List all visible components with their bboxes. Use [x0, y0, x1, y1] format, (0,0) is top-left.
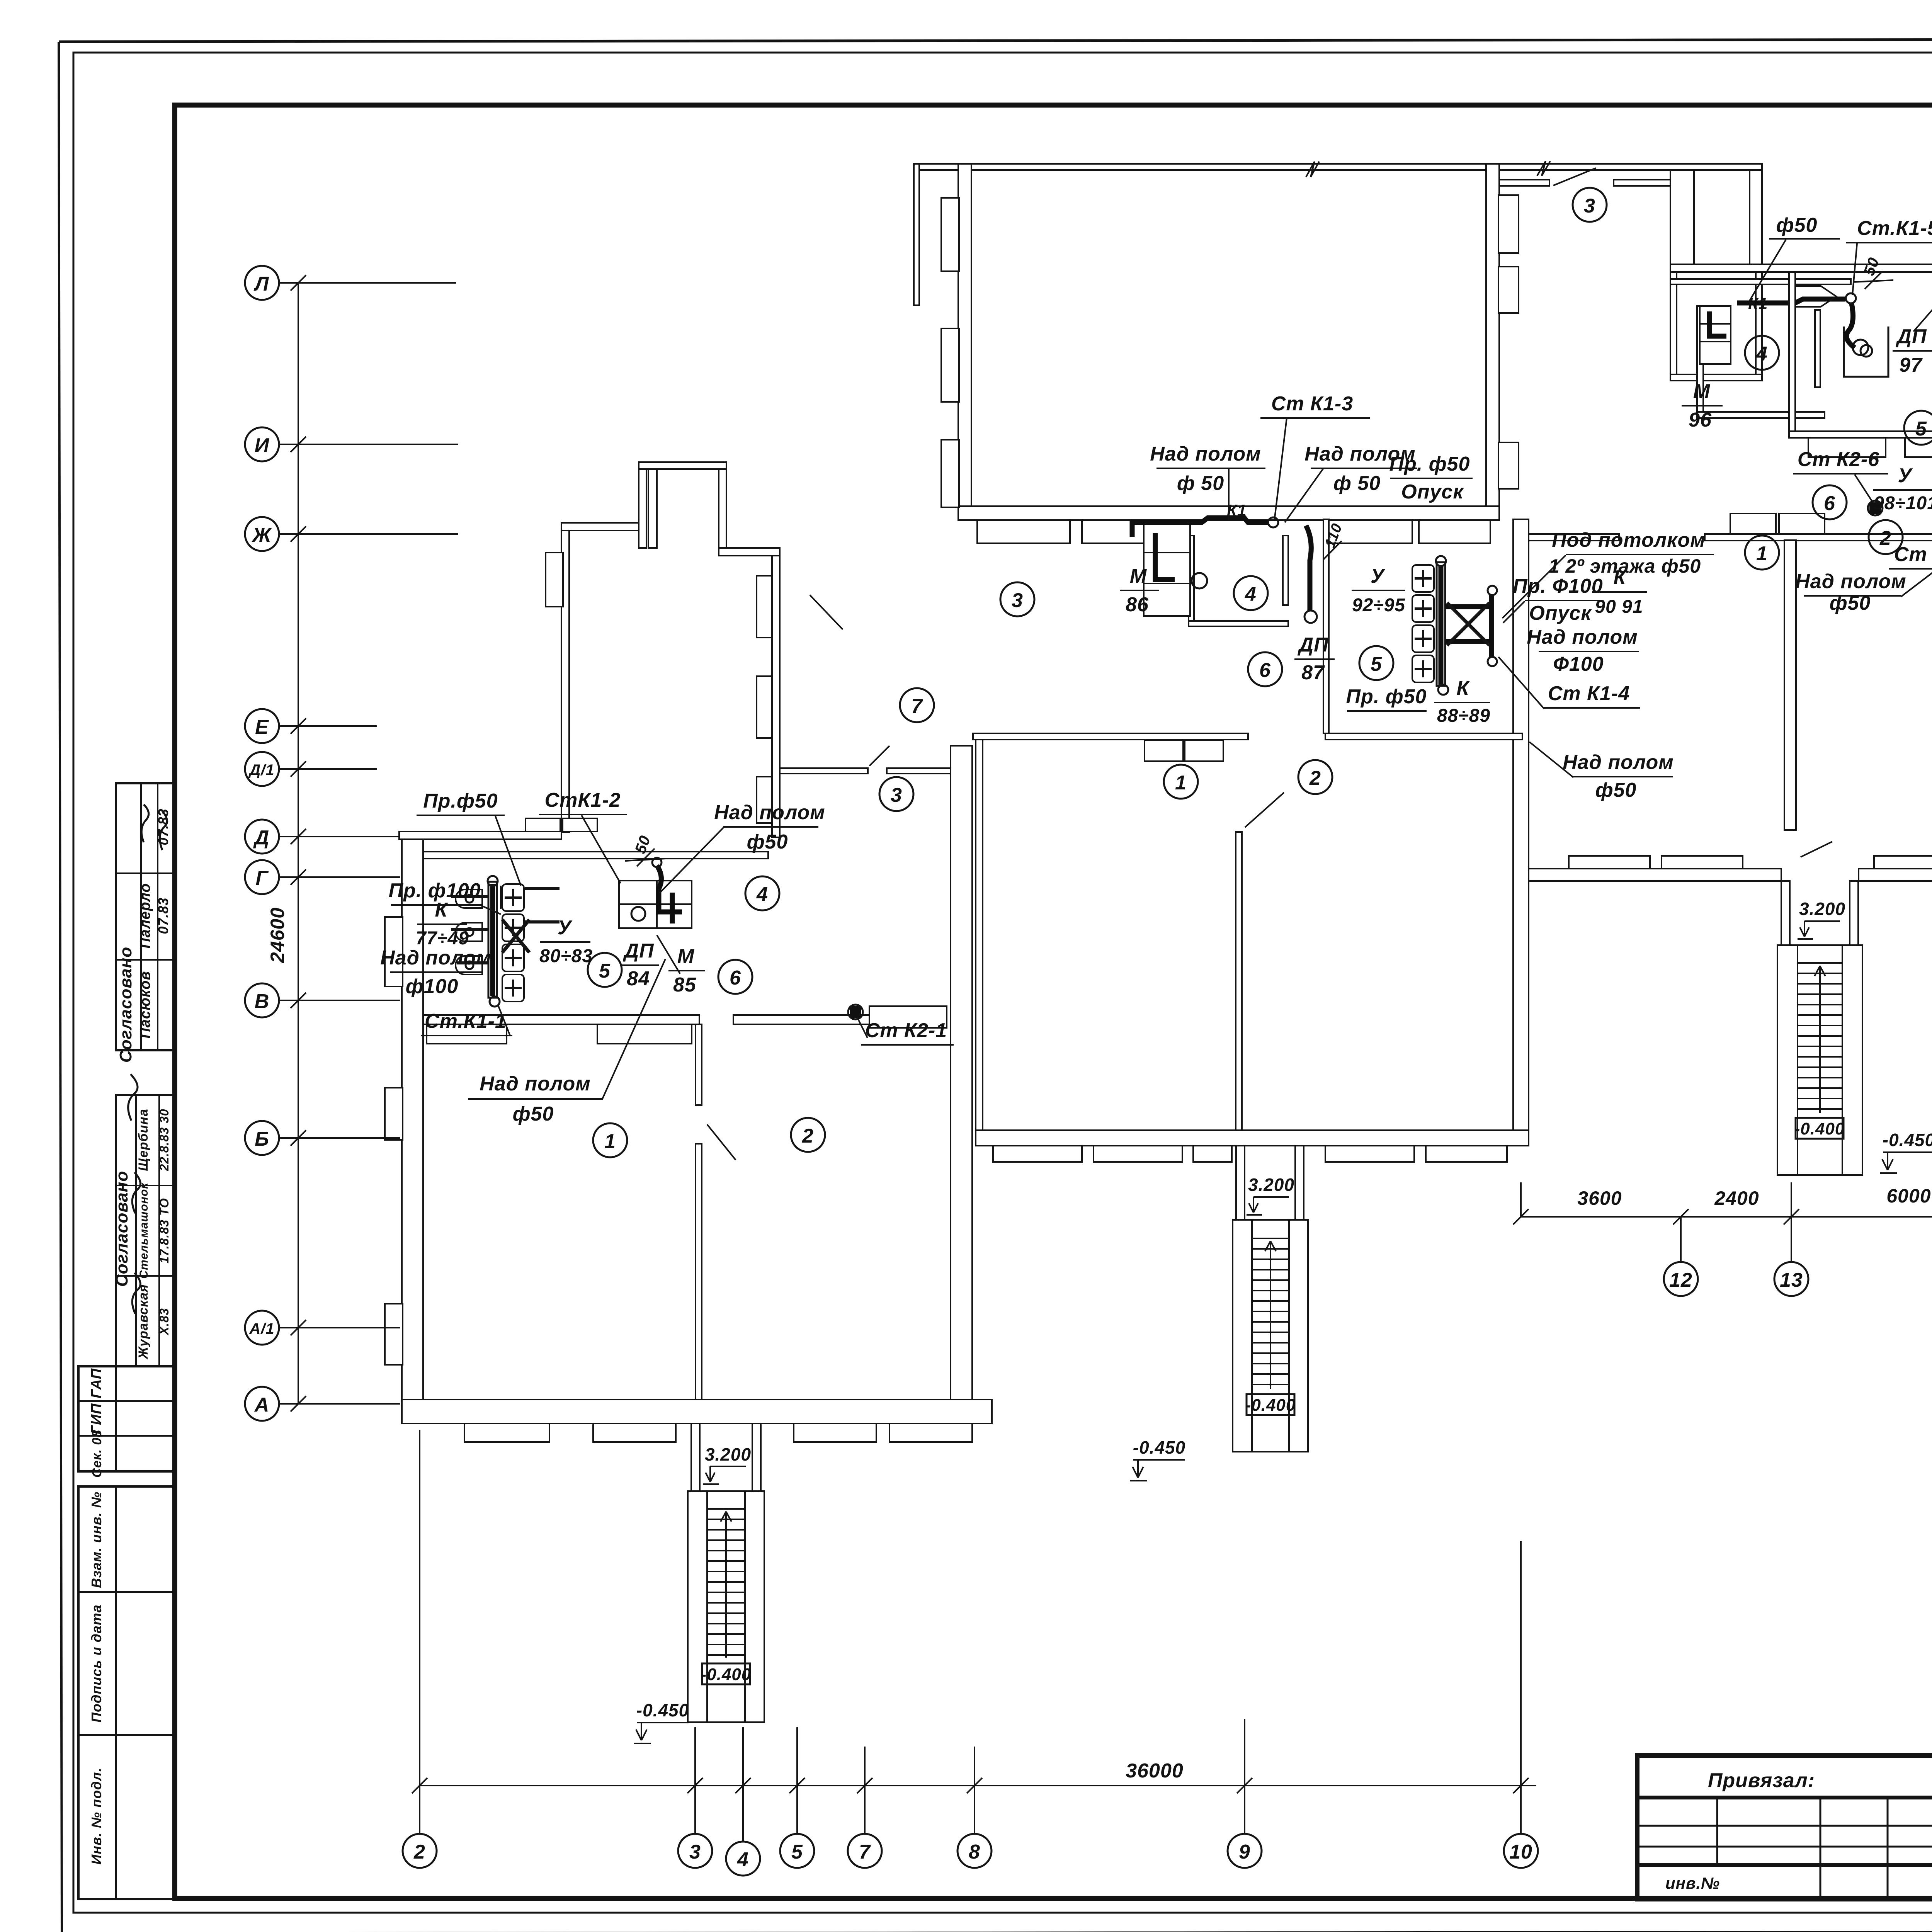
svg-text:Ст.К1-1: Ст.К1-1	[425, 1010, 507, 1032]
svg-text:Опуск: Опуск	[1401, 481, 1464, 503]
svg-text:ф50: ф50	[747, 831, 788, 853]
toilet group center (U 92-95)	[1412, 556, 1497, 695]
svg-text:88÷89: 88÷89	[1437, 706, 1490, 726]
axis 3	[678, 1727, 712, 1868]
svg-text:Журавская: Журавская	[136, 1284, 151, 1360]
svg-text:ф50: ф50	[1776, 214, 1818, 236]
svg-text:У: У	[558, 917, 573, 939]
label f50 NE	[1750, 214, 1840, 301]
svg-text:ф50: ф50	[1830, 592, 1871, 614]
svg-text:90 91: 90 91	[1595, 597, 1643, 617]
sink unit M86	[1144, 523, 1207, 616]
svg-text:ДП: ДП	[1298, 634, 1329, 656]
svg-text:Д/1: Д/1	[248, 762, 274, 779]
room circle 4 topright	[1745, 336, 1779, 370]
sink pipe top-right	[1709, 311, 1726, 336]
svg-text:1: 1	[1756, 543, 1768, 565]
svg-text:5: 5	[1915, 418, 1927, 440]
east wing partition axis 13	[1784, 540, 1796, 830]
axis 2	[403, 1430, 437, 1868]
wall stub left of room3 door	[1499, 180, 1549, 186]
axis 12	[1664, 1217, 1698, 1296]
label Nad polom f50 SW	[468, 959, 665, 1125]
room circle 5 center	[1359, 646, 1393, 680]
label U 98-101	[1873, 464, 1932, 514]
east wing north wall	[1529, 534, 1619, 541]
svg-text:ф50: ф50	[1595, 779, 1637, 801]
room circle 5 left	[588, 953, 622, 987]
axis L	[245, 266, 456, 300]
door leaf annex	[810, 595, 843, 629]
svg-text:У: У	[1898, 464, 1913, 487]
windows right wall top block	[1498, 195, 1519, 489]
svg-text:4: 4	[756, 883, 768, 906]
axis E	[245, 709, 377, 743]
svg-text:У: У	[1371, 565, 1386, 587]
svg-text:Сек. 08: Сек. 08	[90, 1430, 104, 1478]
label St K1-6	[1889, 479, 1932, 569]
label K 88-89	[1434, 677, 1490, 726]
svg-text:Над полом: Над полом	[380, 947, 491, 969]
label St K2-1	[859, 1019, 954, 1045]
cabinets below suite wall	[1808, 438, 1932, 457]
duct block room 3 right	[1670, 170, 1762, 269]
svg-text:ф100: ф100	[406, 975, 459, 998]
room circle 4 center	[1234, 576, 1268, 610]
room circle 3 top	[1573, 188, 1607, 222]
annex west window	[546, 553, 563, 607]
corridor band partition	[1323, 519, 1329, 733]
room circle 6 center	[1248, 652, 1282, 686]
DP counter top-right	[1844, 327, 1888, 377]
svg-text:Пр. ф50: Пр. ф50	[1389, 453, 1470, 475]
cabinets on east wing north wall	[1730, 514, 1825, 534]
svg-text:Пасюков: Пасюков	[137, 971, 153, 1039]
svg-text:3: 3	[1584, 195, 1595, 217]
svg-text:85: 85	[673, 974, 696, 996]
top-center block left wall	[958, 164, 971, 519]
east wing south wall	[1529, 869, 1781, 881]
svg-text:ф50: ф50	[513, 1103, 554, 1125]
label U 80-83	[539, 917, 593, 966]
svg-text:Ж: Ж	[251, 524, 272, 546]
axis Zh	[245, 517, 458, 551]
svg-text:17.8.83 ТО: 17.8.83 ТО	[157, 1198, 171, 1264]
110 slash mark	[1322, 521, 1345, 560]
svg-text:И: И	[255, 434, 270, 457]
east corridor top wall	[1670, 264, 1932, 272]
door leaf room 3	[1553, 168, 1596, 185]
east wing window sills south	[1569, 856, 1932, 869]
M96 room walls	[1670, 269, 1762, 381]
svg-text:ГАП: ГАП	[88, 1368, 105, 1398]
top-center block top wall	[914, 164, 1762, 170]
axis I	[245, 427, 458, 461]
annex tower inner wall	[648, 469, 657, 548]
veranda wall stub left	[914, 164, 919, 305]
svg-text:Б: Б	[255, 1128, 269, 1150]
toilet suite top wall left wing	[423, 852, 768, 859]
buffet room 4 center walls	[1189, 536, 1288, 626]
left wing mid walls	[423, 1015, 699, 1024]
label Nad polom F100 E	[1527, 626, 1639, 675]
room circle 5 topright	[1904, 411, 1932, 445]
label K 90 91	[1592, 566, 1647, 617]
svg-text:86: 86	[1126, 594, 1149, 616]
stair E 3.200 mark	[1798, 899, 1845, 939]
stair S-center -0.450 mark	[1130, 1437, 1185, 1481]
svg-text:3: 3	[891, 784, 902, 806]
svg-text:Над полом: Над полом	[1527, 626, 1638, 648]
svg-text:3.200: 3.200	[1248, 1175, 1294, 1195]
svg-text:Над полом: Над полом	[1150, 443, 1261, 465]
label St K1-3	[1260, 393, 1370, 521]
svg-text:2400: 2400	[1714, 1187, 1759, 1209]
vent hood pentagon	[1790, 286, 1836, 307]
label Nad polom f50 SE of suite	[1795, 482, 1932, 614]
svg-text:Согласовано: Согласовано	[116, 947, 135, 1063]
svg-text:-0.400: -0.400	[1245, 1396, 1296, 1415]
svg-text:2: 2	[1879, 527, 1891, 549]
svg-text:07.83: 07.83	[155, 897, 171, 934]
axis D1	[245, 752, 377, 786]
svg-text:ф 50: ф 50	[1333, 472, 1381, 495]
windows left wall top block	[941, 198, 959, 507]
axis V	[245, 983, 400, 1017]
annex top wall	[561, 523, 643, 531]
st K2-1 stack	[848, 1005, 863, 1019]
svg-text:5: 5	[1371, 653, 1382, 675]
door leaf east partition	[1801, 842, 1832, 857]
label M 85	[657, 935, 705, 996]
svg-text:К: К	[1457, 677, 1470, 699]
svg-text:-0.400: -0.400	[1794, 1119, 1845, 1138]
svg-text:36000: 36000	[1126, 1760, 1184, 1782]
axis 10	[1504, 1541, 1538, 1868]
svg-text:6: 6	[1259, 659, 1271, 682]
door leaf wing rooms	[707, 1124, 736, 1160]
svg-text:24600: 24600	[267, 907, 288, 963]
left wing north wall	[399, 832, 561, 839]
svg-text:3: 3	[1012, 589, 1023, 612]
stair S-center entry walls	[1236, 1146, 1304, 1220]
svg-text:Подпись и дата: Подпись и дата	[88, 1604, 104, 1723]
right dimension line 3600-2400-6000	[1513, 1182, 1932, 1225]
west wall windows	[385, 917, 403, 1365]
svg-text:Г: Г	[256, 867, 269, 889]
label M 96	[1682, 380, 1723, 431]
corridor band bottom walls	[973, 733, 1248, 740]
room circle 3 left	[879, 777, 913, 811]
svg-text:5: 5	[599, 960, 611, 982]
sink pipe M86	[1155, 533, 1175, 580]
sink unit top-right	[1700, 306, 1731, 364]
privyazal box	[1637, 1755, 1932, 1899]
svg-text:К: К	[1614, 566, 1627, 589]
room circle 2 topright	[1869, 520, 1903, 554]
svg-text:ф 50: ф 50	[1177, 472, 1224, 495]
svg-text:Х.83: Х.83	[157, 1308, 171, 1336]
st K2-6 stack	[1868, 501, 1883, 515]
stamp block A (top, Согласовано)	[116, 783, 175, 1063]
svg-text:Пр. ф50: Пр. ф50	[1346, 685, 1427, 708]
stair SW -0.450 mark	[634, 1700, 689, 1743]
svg-text:1: 1	[604, 1130, 616, 1153]
svg-text:Палерло: Палерло	[137, 883, 153, 948]
svg-text:А/1: А/1	[249, 1320, 274, 1337]
axis 7	[848, 1747, 882, 1868]
label Pr f50 W	[417, 790, 521, 886]
sink unit M85	[619, 881, 692, 928]
svg-text:22.8.83 30: 22.8.83 30	[157, 1109, 171, 1171]
svg-text:Пр.ф50: Пр.ф50	[423, 790, 498, 812]
svg-text:Ст К1-6: Ст К1-6	[1894, 543, 1932, 566]
corridor7 south walls	[780, 768, 868, 774]
svg-text:Ст.К1-5: Ст.К1-5	[1857, 217, 1932, 240]
svg-text:5: 5	[791, 1841, 803, 1863]
room circle 1 left	[593, 1123, 627, 1157]
second break zigzag	[1537, 161, 1550, 176]
label Pr f50 NE	[1913, 202, 1932, 332]
axis A1	[245, 1311, 400, 1345]
top-center block bottom wall	[958, 506, 1499, 520]
50 slash mark W	[625, 833, 665, 866]
toilet group left (K 77-79)	[451, 876, 560, 1007]
annex east wall	[772, 548, 780, 837]
label M 86	[1120, 565, 1159, 616]
partition rooms 1-2 center	[1236, 832, 1242, 1130]
room circle 6 left	[718, 960, 752, 994]
svg-text:ДП: ДП	[1896, 325, 1927, 348]
label K 77-79	[416, 899, 469, 949]
stamp block C (bottom, Инв./Подпись)	[78, 1486, 175, 1899]
svg-text:инв.№: инв.№	[1665, 1874, 1720, 1892]
K1 pipe top-right	[1737, 293, 1872, 357]
suite bottom wall	[1789, 431, 1932, 438]
svg-text:Щербина: Щербина	[136, 1109, 151, 1171]
svg-text:98÷101: 98÷101	[1874, 493, 1932, 514]
svg-text:3.200: 3.200	[705, 1444, 751, 1464]
annex link wall	[719, 548, 780, 556]
stamp block B (middle, Согласовано ГАП/ГИП)	[78, 1074, 175, 1478]
svg-text:12: 12	[1669, 1269, 1692, 1291]
room circle 1 east	[1745, 536, 1779, 570]
stair SW entry walls	[691, 1423, 761, 1491]
stair SW tower	[688, 1491, 764, 1722]
label St K1-2	[539, 789, 627, 883]
sills below top block bottom wall	[977, 520, 1490, 543]
label Pr F100 Opusk	[1503, 575, 1604, 624]
stair E tower	[1777, 945, 1862, 1175]
label Nad polom f50 W	[659, 801, 825, 893]
svg-text:4: 4	[737, 1849, 749, 1871]
svg-text:6: 6	[730, 967, 741, 989]
svg-text:А: А	[254, 1394, 270, 1416]
sills right of stack	[869, 1006, 947, 1028]
label DP 84	[621, 940, 659, 990]
svg-text:Над полом: Над полом	[1795, 570, 1906, 593]
cabinets room1 top	[1145, 740, 1223, 761]
room circle 1 center	[1164, 765, 1198, 799]
svg-text:Л: Л	[253, 273, 269, 295]
stair S-center 3.200 mark	[1247, 1175, 1294, 1215]
room circle 2 left	[791, 1118, 825, 1152]
svg-text:Ф100: Ф100	[1553, 653, 1604, 675]
cabinets on wing north wall	[526, 818, 597, 832]
svg-text:Ст К2-1: Ст К2-1	[865, 1019, 947, 1042]
axis B	[245, 1121, 400, 1155]
label St K1-1	[421, 1006, 512, 1036]
left wing south wall	[402, 1400, 992, 1423]
room circle 7 left	[900, 688, 934, 722]
stair E entry walls	[1781, 881, 1858, 945]
svg-text:6000: 6000	[1886, 1185, 1931, 1207]
svg-text:Над полом: Над полом	[480, 1073, 590, 1095]
sink pipe M85	[652, 858, 682, 923]
label U 92-95	[1352, 565, 1405, 616]
svg-text:2: 2	[802, 1125, 814, 1147]
label St K1-5	[1846, 217, 1932, 295]
room circle 6 topright	[1813, 485, 1847, 519]
svg-text:Над полом: Над полом	[1563, 751, 1673, 774]
stair SW 3.200 mark	[703, 1444, 751, 1484]
stair S-center tower	[1233, 1220, 1308, 1452]
svg-text:Е: Е	[255, 716, 269, 738]
svg-text:3600: 3600	[1577, 1187, 1622, 1209]
label Nad polom f100 W	[380, 947, 491, 998]
svg-text:М: М	[1130, 565, 1147, 587]
annex east wall sills	[757, 576, 772, 823]
wall break zigzag top wall	[1306, 162, 1319, 177]
svg-text:Взам. инв. №: Взам. инв. №	[88, 1492, 104, 1588]
stair E -0.450 mark	[1880, 1130, 1932, 1173]
label Nad polom f50 top right	[1285, 443, 1417, 522]
svg-text:77÷49: 77÷49	[416, 928, 469, 949]
annex tower walls	[639, 462, 726, 548]
K1 pipe center	[1132, 517, 1317, 623]
svg-text:Д: Д	[253, 827, 270, 849]
svg-text:4: 4	[1756, 343, 1768, 365]
svg-text:Согласовано: Согласовано	[112, 1171, 131, 1287]
svg-text:Привязал:: Привязал:	[1708, 1769, 1815, 1792]
svg-text:М: М	[1693, 380, 1711, 403]
label Nad polom f50 E	[1529, 742, 1674, 801]
center block south wall	[976, 1130, 1529, 1146]
label DP 87	[1294, 634, 1335, 684]
svg-text:92÷95: 92÷95	[1352, 595, 1405, 616]
svg-text:87: 87	[1301, 662, 1325, 684]
svg-text:Стельмашонок: Стельмашонок	[138, 1182, 150, 1279]
axis D	[245, 820, 400, 854]
south wall window sills	[464, 1423, 972, 1442]
svg-text:Ст К2-6: Ст К2-6	[1798, 448, 1879, 471]
svg-text:-0.450: -0.450	[1133, 1437, 1185, 1458]
svg-text:-0.450: -0.450	[636, 1700, 689, 1720]
center/east shared wall	[1513, 519, 1529, 1146]
center south window sills	[993, 1146, 1507, 1162]
svg-text:6: 6	[1824, 492, 1835, 515]
label Pr f100 W	[389, 879, 501, 914]
sills below mid wall	[427, 1024, 692, 1044]
annex west wall	[561, 523, 569, 832]
svg-text:ДП: ДП	[623, 940, 655, 962]
door leaf corridor7	[869, 746, 889, 766]
axis dim line 24600	[298, 283, 299, 1404]
svg-text:3: 3	[689, 1841, 701, 1863]
axis 8	[957, 1747, 992, 1868]
room circle 4 left	[745, 876, 779, 910]
svg-text:-0.450: -0.450	[1883, 1130, 1932, 1150]
left wing west wall	[402, 832, 423, 1423]
left axis column	[267, 275, 306, 1412]
svg-text:Ст К1-4: Ст К1-4	[1548, 682, 1630, 705]
svg-text:Над полом: Над полом	[714, 801, 825, 824]
svg-text:97: 97	[1899, 354, 1923, 376]
label Pr f50 Opusk center	[1389, 453, 1473, 503]
axis 13	[1774, 1182, 1808, 1296]
svg-text:В: В	[255, 990, 270, 1013]
svg-text:2: 2	[1309, 767, 1321, 789]
svg-text:13: 13	[1780, 1269, 1803, 1291]
svg-text:9: 9	[1239, 1841, 1250, 1863]
svg-text:84: 84	[627, 968, 650, 990]
axis 5	[780, 1727, 814, 1868]
suite interior left wall	[1789, 272, 1795, 431]
svg-text:СтК1-2: СтК1-2	[545, 789, 621, 811]
label DP 97	[1893, 325, 1932, 376]
svg-text:М: М	[677, 945, 695, 968]
svg-text:96: 96	[1689, 409, 1712, 431]
svg-text:2: 2	[413, 1841, 425, 1863]
svg-text:8: 8	[969, 1841, 980, 1863]
room circle 3 center	[1000, 582, 1034, 616]
label Pod potolkom	[1502, 529, 1714, 618]
buffet room top-right walls	[1697, 306, 1825, 418]
axis A	[245, 1387, 400, 1421]
svg-text:Инв. № подл.: Инв. № подл.	[88, 1767, 104, 1864]
svg-text:Под потолком: Под потолком	[1552, 529, 1706, 551]
left wing east wall	[951, 746, 972, 1400]
room circle 2 center	[1298, 760, 1332, 794]
door leaf rooms 1-2	[1245, 793, 1284, 827]
axis G	[245, 860, 400, 894]
svg-text:80÷83: 80÷83	[539, 946, 593, 966]
svg-text:10: 10	[1509, 1841, 1532, 1863]
label St K2-6	[1793, 448, 1888, 503]
svg-text:1: 1	[1175, 772, 1187, 794]
svg-text:К: К	[435, 899, 449, 921]
axis 9	[1228, 1719, 1262, 1868]
svg-text:7: 7	[911, 695, 923, 718]
svg-text:Ст К1-3: Ст К1-3	[1271, 393, 1353, 415]
label Nad polom f50 top left	[1150, 443, 1265, 520]
svg-text:К1: К1	[1227, 501, 1247, 519]
svg-text:4: 4	[1245, 583, 1257, 605]
bottom dimension line 36000	[412, 1760, 1536, 1793]
50 slash mark	[1853, 255, 1893, 289]
svg-text:-0.400: -0.400	[701, 1665, 752, 1684]
svg-text:7: 7	[859, 1841, 871, 1863]
wall stub right of room3 door	[1614, 180, 1670, 186]
axis 4	[726, 1727, 760, 1876]
svg-text:Опуск: Опуск	[1529, 602, 1592, 624]
svg-text:3.200: 3.200	[1799, 899, 1845, 919]
top-center block right wall	[1486, 164, 1499, 519]
center block west wall	[976, 733, 983, 1146]
svg-text:Пр. Ф100: Пр. Ф100	[1513, 575, 1603, 597]
label Pr f50 center low	[1346, 685, 1427, 711]
left wing room divider	[696, 1024, 702, 1406]
